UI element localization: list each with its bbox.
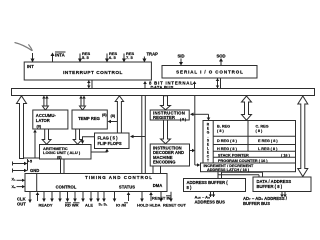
wire instruction register to decoder hollow arrow: [161, 120, 171, 144]
svg-text:5. 5: 5. 5: [82, 55, 89, 60]
svg-text:+5: +5: [28, 159, 33, 164]
wire temp reg to ALU hollow arrow: [73, 129, 82, 144]
svg-text:GND: GND: [30, 168, 39, 173]
serial I/O control block: [162, 66, 257, 79]
ALU block: [40, 145, 92, 160]
register D E row: [213, 135, 295, 137]
svg-text:T: T: [207, 159, 209, 163]
wire decoder to internal line: [190, 150, 193, 152]
wire bus to register array hollow double arrow: [242, 96, 252, 120]
wire decoder to timing pair: [152, 166, 154, 174]
wire S1 pin: [97, 192, 99, 199]
svg-text:STATUS: STATUS: [119, 184, 135, 189]
svg-text:X₁: X₁: [12, 178, 17, 182]
data/address buffer block: [253, 177, 311, 192]
wire pin: [160, 192, 162, 199]
svg-text:CONTROL: CONTROL: [56, 184, 77, 189]
svg-text:TEMP REG: TEMP REG: [78, 116, 100, 121]
wire CLK OUT: [29, 192, 31, 201]
wire serial to bus double link: [217, 78, 219, 89]
svg-text:8 ): 8 ): [187, 185, 192, 190]
wire bus to instruction register hollow arrow: [161, 96, 171, 110]
svg-text:LATOR: LATOR: [36, 118, 50, 123]
svg-text:RESET OUT: RESET OUT: [163, 203, 186, 208]
wire HLDA pin: [141, 192, 143, 199]
svg-text:L REG ( 8 ): L REG ( 8 ): [258, 147, 278, 151]
wire bus to address latch: [194, 96, 196, 166]
svg-text:ALE: ALE: [85, 203, 93, 208]
accumulator block: [33, 110, 68, 129]
wire RESET OUT pin: [170, 192, 172, 199]
wire ALU bottom link: [24, 157, 40, 159]
wire READY pin: [37, 194, 39, 201]
svg-text:SERIAL I / O CONTROL: SERIAL I / O CONTROL: [176, 70, 244, 75]
wire ALU to bus hollow arrow: [17, 96, 27, 159]
svg-text:INTA: INTA: [55, 53, 65, 58]
internal data bus bar: [12, 89, 315, 96]
svg-text:H REG ( 8 ): H REG ( 8 ): [217, 147, 238, 151]
svg-text:FLAG ( 5 ): FLAG ( 5 ): [98, 136, 119, 141]
wire bus to flag flip flops double link: [115, 96, 123, 133]
wire bus to accumulator double link: [43, 96, 45, 107]
svg-text:DMA: DMA: [153, 183, 163, 188]
wire accumulator to ALU hollow arrow: [42, 129, 51, 144]
wire ALU to flag: [91, 151, 107, 154]
wire HOLD pin: [128, 194, 130, 201]
wire address buffer output double link: [210, 192, 212, 198]
svg-text:E REG ( 8 ): E REG ( 8 ): [258, 139, 278, 143]
wire WR pin: [59, 192, 61, 199]
wire ALU to timing pair: [60, 159, 62, 174]
svg-text:OUT: OUT: [17, 202, 26, 207]
wire pin: [103, 192, 105, 199]
svg-text:S₀ S₁: S₀ S₁: [99, 203, 108, 207]
svg-text:( 8 ): ( 8 ): [256, 129, 263, 133]
pen doodle mark: [15, 43, 32, 51]
svg-text:6. 5: 6. 5: [109, 55, 116, 60]
svg-text:D REG ( 8 ): D REG ( 8 ): [217, 139, 238, 143]
wire to instruction register and register select: [194, 113, 209, 115]
wire ALU to accumulator feedback: [34, 132, 36, 158]
wire flag to ALU: [83, 137, 95, 141]
register B C row: [247, 121, 249, 152]
svg-text:TIMING AND CONTROL: TIMING AND CONTROL: [85, 175, 153, 180]
instruction register block: [150, 110, 189, 120]
svg-text:(8): (8): [57, 155, 62, 159]
wire GND supply: [12, 169, 14, 173]
wire bus to data/address buffer tall hollow double arrow: [298, 96, 308, 177]
address buffer block: [184, 179, 246, 192]
svg-text:LOGIC UNIT ( ALU ): LOGIC UNIT ( ALU ): [43, 150, 81, 155]
svg-text:FLIP FLOPS: FLIP FLOPS: [98, 141, 122, 146]
svg-text:TRAP: TRAP: [147, 52, 159, 57]
wire into temp reg from right: [110, 121, 118, 123]
increment/decrement address latch block: [201, 163, 296, 172]
wire RESET IN pin: [150, 194, 152, 201]
wire ALE pin: [82, 192, 84, 199]
wire INTR input: [32, 53, 34, 59]
svg-text:C. REG: C. REG: [256, 125, 269, 129]
svg-text:HOLD HLDA: HOLD HLDA: [137, 203, 161, 208]
svg-text:READY: READY: [39, 203, 53, 208]
wire RST 5.5 input: [79, 54, 81, 60]
register array outer block: [203, 121, 296, 164]
wire SOD output: [220, 61, 222, 66]
wire RST 7.5 input: [123, 54, 125, 60]
wire S0 pin: [90, 192, 92, 199]
temp register block: [72, 110, 107, 129]
wire data buffer output double link: [281, 192, 283, 198]
flag flip flops block: [95, 133, 130, 149]
interrupt control block: [24, 62, 151, 80]
wire pin: [43, 192, 45, 199]
wire +5V supply: [12, 162, 14, 166]
wire IO/M pin: [114, 192, 116, 199]
svg-text:BUFFER BUS: BUFFER BUS: [243, 201, 270, 206]
wire bus to temp reg double link: [80, 96, 82, 107]
wire RST 6.5 input: [106, 54, 108, 60]
svg-text:ADDRESS BUS: ADDRESS BUS: [195, 200, 226, 205]
svg-text:ADDRESS BUFFER (: ADDRESS BUFFER (: [187, 180, 229, 185]
svg-text:BUFFER ( 8 ): BUFFER ( 8 ): [257, 184, 283, 189]
svg-text:SID: SID: [178, 54, 185, 59]
wire SID input: [180, 59, 182, 63]
wire latch to data/address buffer rail: [222, 171, 263, 173]
wire latch to address buffer double link: [217, 172, 219, 179]
svg-text:REGISTER: REGISTER: [153, 115, 176, 120]
svg-text:ENCODING: ENCODING: [153, 160, 176, 165]
wire pin: [74, 192, 76, 199]
stack pointer row: [213, 150, 295, 152]
svg-text:(8): (8): [37, 125, 42, 129]
svg-text:INT: INT: [27, 64, 34, 69]
svg-text:7. 5: 7. 5: [126, 55, 133, 60]
wire interrupt to bus double link: [88, 80, 90, 89]
svg-text:B. REG: B. REG: [217, 125, 230, 129]
wire pin: [67, 192, 69, 199]
wire power vertical: [27, 159, 29, 171]
svg-text:SOD: SOD: [216, 54, 225, 59]
register H L row: [213, 144, 295, 146]
wire RD pin: [51, 192, 53, 199]
svg-text:(8): (8): [111, 114, 116, 118]
svg-text:(8): (8): [102, 113, 107, 117]
svg-text:( 8 ): ( 8 ): [217, 129, 224, 133]
instruction decoder block: [150, 144, 189, 166]
svg-text:X₂: X₂: [12, 185, 17, 189]
timing and control block: [25, 174, 167, 192]
svg-text:ADDRESS LATCH ( 16 ): ADDRESS LATCH ( 16 ): [207, 168, 250, 172]
wire control line into flag from right: [133, 136, 146, 138]
svg-text:( 8 ): ( 8 ): [180, 118, 186, 122]
wire INTA output: [52, 55, 54, 62]
program counter row: [213, 156, 295, 158]
node reg select column: [212, 121, 214, 164]
svg-text:INTERRUPT CONTROL: INTERRUPT CONTROL: [63, 70, 123, 75]
wire bus to timing control pair: [141, 96, 143, 174]
wire TRAP input: [143, 57, 145, 60]
